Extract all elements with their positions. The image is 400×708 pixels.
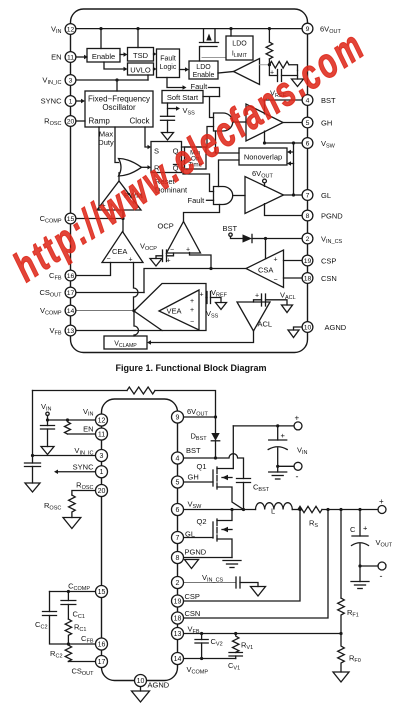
junction VCOMP node — [132, 309, 135, 312]
svg-text:PGND: PGND — [185, 548, 207, 557]
svg-text:AGND: AGND — [325, 323, 347, 332]
svg-text:GL: GL — [321, 191, 331, 200]
op-amp CEA — [102, 232, 143, 264]
junction CSN on output rail — [326, 508, 329, 511]
node VIN - terminal — [294, 462, 302, 481]
ground VIN_CS — [251, 587, 266, 597]
pin 10 AGND — [302, 322, 347, 333]
svg-text:SYNC: SYNC — [73, 463, 94, 472]
wire CCOMP from pin 15 — [50, 591, 97, 593]
svg-text:TSD: TSD — [133, 51, 149, 60]
capacitor VOCP — [156, 250, 174, 265]
svg-text:+: + — [281, 431, 286, 440]
svg-text:2: 2 — [306, 236, 310, 243]
junction 6VOUT node — [214, 415, 217, 418]
transistor Q1 — [213, 467, 244, 510]
junction CV2 on VCOMP — [200, 657, 203, 660]
svg-text:+: + — [200, 292, 204, 299]
gate AND2 (GL) — [214, 187, 233, 205]
svg-text:GL: GL — [185, 530, 195, 539]
svg-text:7: 7 — [176, 535, 180, 542]
svg-text:20: 20 — [98, 488, 106, 495]
svg-text:9: 9 — [306, 26, 310, 33]
transistor LDO pass device — [200, 29, 219, 61]
wire CSP pin 19 to CSA + — [284, 260, 308, 262]
pin 20 ROSC — [44, 116, 76, 128]
wire VCOMP node to VCLAMP (hop over VFB wire) — [134, 311, 139, 336]
svg-text:1: 1 — [100, 469, 104, 476]
wire Vss arrow from soft start — [168, 106, 181, 110]
wire EN arrow into Enable — [76, 55, 88, 59]
junction on VIN rail above TSD — [136, 27, 139, 30]
pin 18 CSN — [302, 273, 337, 284]
wire CSN pin 18 to CSA - — [284, 277, 308, 279]
capacitor VIN bypass — [41, 420, 55, 447]
svg-text:Figure 1. Functional Block Dia: Figure 1. Functional Block Diagram — [115, 363, 266, 373]
pin 12 VIN — [51, 24, 76, 35]
block Enable — [87, 49, 120, 63]
pin 18 CSN (app) — [172, 609, 201, 624]
junction CFB node — [67, 642, 70, 645]
wire CEA output to PWM input — [122, 210, 124, 232]
resistor RC1 — [65, 619, 71, 644]
pin 11 EN — [51, 52, 76, 63]
wire CFB to pin 16 — [68, 643, 96, 645]
node VOUT - terminal — [378, 562, 386, 581]
wire top rail to DBST — [155, 391, 216, 434]
junction VIN source cap — [276, 424, 279, 427]
svg-text:Logic: Logic — [160, 64, 177, 71]
diode BST to VIN_CS — [243, 234, 266, 242]
ground output cap (3-bar) — [351, 566, 369, 589]
wire soft start output down — [167, 103, 169, 116]
svg-text:10: 10 — [304, 324, 312, 331]
wire AND1 to GH driver — [233, 121, 246, 123]
wire OR output to latch R arrow — [142, 165, 152, 169]
capacitor VIN source — [268, 426, 287, 466]
pin 7 GL — [302, 190, 331, 201]
block LDO Enable — [189, 61, 218, 79]
resistor RC2 — [65, 644, 71, 662]
svg-text:CSA: CSA — [258, 266, 273, 275]
svg-text:10: 10 — [137, 678, 145, 685]
svg-text:11: 11 — [98, 431, 105, 438]
pin 7 GL (app) — [172, 530, 196, 544]
svg-text:Oscillator: Oscillator — [102, 103, 136, 112]
svg-text:+: + — [363, 524, 368, 533]
svg-text:12: 12 — [98, 417, 106, 424]
wire VIN_CS pin 2 — [266, 238, 308, 240]
svg-text:6: 6 — [306, 140, 310, 147]
wire VFB pin 13 to error amp lower edge — [76, 330, 162, 332]
ground soft start — [162, 133, 174, 141]
amplifier ACL — [237, 302, 272, 331]
op-amp LDO error amp — [234, 59, 260, 85]
svg-text:5: 5 — [176, 479, 180, 486]
svg-text:+: + — [190, 307, 194, 314]
wire Rosc into oscillator — [76, 120, 85, 122]
op-amp error amplifier (outer) — [134, 284, 206, 331]
pin 12 VIN (app) — [83, 407, 108, 426]
resistor RF1 — [338, 598, 345, 634]
svg-text:4: 4 — [176, 455, 180, 462]
svg-text:BST: BST — [223, 224, 238, 233]
wire SYNC open with arrow — [54, 470, 96, 474]
wire left VIN_IC rail — [32, 391, 34, 456]
wire pin3 to oscillator top — [116, 80, 118, 91]
svg-text:8: 8 — [306, 213, 310, 220]
svg-text:14: 14 — [174, 656, 182, 663]
block Fault Logic — [157, 49, 180, 78]
svg-text:9: 9 — [176, 414, 180, 421]
junction Q2 drain on VSW — [230, 508, 233, 511]
wire Nonoverlap to AND2 — [219, 160, 240, 187]
pin 14 VCOMP (app) — [172, 653, 209, 676]
block Soft Start — [162, 91, 203, 104]
block VCLAMP — [104, 336, 147, 349]
wire Enable to UVLO arrow — [104, 62, 128, 71]
svg-text:16: 16 — [67, 273, 75, 280]
pin 13 VFB — [49, 325, 75, 337]
wire VIN source minus — [278, 465, 294, 467]
wire VSW pin 6 to inductor — [183, 509, 256, 511]
pin 5 GH (app) — [172, 473, 199, 489]
junction VFB divider — [339, 632, 342, 635]
svg-text:+: + — [379, 497, 384, 506]
svg-text:16: 16 — [98, 641, 106, 648]
block Nonoverlap — [239, 148, 287, 165]
wire Max Duty to OR gate — [115, 127, 119, 163]
wire VIN_IC (pin 3) — [76, 79, 148, 81]
op-amp CSA — [246, 250, 284, 288]
wire EN to pin 11 — [68, 433, 97, 435]
ground VREF (VEA) — [216, 303, 227, 310]
junction CCOMP/CEA/PWM — [121, 217, 124, 220]
pin 11 EN (app) — [83, 425, 107, 441]
wire VIN source rail — [233, 425, 294, 427]
wire rail to Enable — [100, 29, 102, 49]
ground LDO divider — [292, 71, 304, 87]
wire rail to TSD — [137, 29, 139, 48]
pin 16 CFB — [49, 270, 76, 282]
node 6VOUT terminal at GL driver — [252, 169, 273, 186]
junction output cap tap — [358, 508, 361, 511]
resistor LDO divider lower (horizontal) — [269, 61, 297, 70]
pin 13 VFB (app) — [172, 625, 200, 640]
pin 15 CCOMP (app) — [96, 586, 108, 598]
wire OCP + to CS rail — [190, 253, 212, 269]
wire GH driver supply to BST pin 4 — [265, 100, 308, 114]
op-amp VEA (inner) — [159, 290, 199, 330]
capacitor VIN_CS — [236, 577, 258, 588]
capacitor CV1 — [229, 653, 242, 659]
svg-text:PGND: PGND — [321, 212, 343, 221]
pin 17 CSOUT (app) — [71, 656, 107, 678]
wire AND2 to GL driver — [233, 195, 245, 197]
svg-text:L: L — [271, 507, 275, 516]
capacitor VREF (VEA) — [200, 292, 222, 304]
svg-text:2: 2 — [176, 580, 180, 587]
wire soft start to AND1 — [203, 97, 220, 118]
block UVLO — [128, 63, 154, 75]
ground AGND pin 10 — [288, 327, 301, 338]
svg-text:Clock: Clock — [129, 117, 150, 126]
wire Ramp to PWM — [98, 127, 100, 210]
junction CBST on VSW — [242, 508, 245, 511]
svg-text:Duty: Duty — [98, 138, 114, 147]
svg-text:ACL: ACL — [258, 320, 273, 329]
wire GL driver lower rail to PGND pin 8 — [265, 204, 308, 216]
wire latch Q to AND1 — [182, 127, 214, 148]
wire output rail to + terminal — [322, 509, 378, 511]
svg-text:LDO: LDO — [196, 64, 211, 71]
node Fault label at AND2 — [188, 196, 214, 205]
svg-text:−: − — [190, 319, 194, 326]
comparator PWM — [97, 181, 142, 210]
pin 1 SYNC (app) — [73, 463, 108, 478]
wire top rail from VIN to resistor — [33, 390, 128, 392]
wire pin3 to UVLO bottom — [147, 75, 149, 80]
wire VSW sense into Nonoverlap — [287, 143, 294, 195]
ground RF0 — [333, 672, 349, 682]
junction output minus — [358, 564, 361, 567]
resistor RV1 — [233, 634, 239, 653]
wire VCOMP pin 14 — [183, 658, 236, 660]
junction on VIN rail above LDO divider — [268, 27, 271, 30]
junction RF1 tap — [339, 508, 342, 511]
wire SYNC arrow into oscillator — [76, 99, 85, 103]
wire VIN plus rail — [232, 426, 234, 469]
wire OCP output — [184, 205, 220, 222]
svg-text:1: 1 — [69, 98, 73, 105]
capacitor CC2 — [43, 592, 69, 645]
svg-text:−: − — [274, 277, 278, 284]
svg-text:Nonoverlap: Nonoverlap — [244, 153, 282, 162]
node Max Duty label — [98, 130, 114, 148]
wire Fault net from Fault Logic — [167, 78, 187, 90]
wire ROSC from pin 20 — [72, 491, 96, 496]
wire PWM output to OR gate — [118, 173, 120, 181]
pin 10 AGND (app) — [135, 675, 170, 690]
svg-text:AGND: AGND — [148, 681, 170, 690]
node VOUT + terminal — [378, 497, 386, 514]
block TSD — [128, 48, 154, 62]
pin 16 CFB (app) — [81, 634, 107, 650]
wire CFB pin 16 to CEA inverting input — [76, 263, 111, 276]
svg-text:3: 3 — [100, 453, 104, 460]
svg-text:6: 6 — [176, 507, 180, 514]
wire Clock to latch S arrow — [145, 127, 151, 149]
svg-text:GH: GH — [188, 473, 199, 482]
buffer GH driver — [246, 104, 283, 141]
svg-text:17: 17 — [67, 290, 75, 297]
wire RF1 from output rail — [340, 510, 342, 599]
ground VOCP — [150, 259, 162, 267]
resistor RS (sense) — [298, 506, 322, 512]
transistor Q2 — [213, 510, 232, 558]
svg-text:18: 18 — [304, 275, 312, 282]
pin 8 PGND — [302, 210, 343, 221]
pin 19 CSP (app) — [172, 592, 200, 607]
junction GL output sense — [292, 193, 295, 196]
svg-text:13: 13 — [67, 328, 75, 335]
pin 9 6VOUT (app) — [172, 407, 209, 423]
wire VIN rail (pin 12 to pin 9) — [76, 28, 307, 30]
resistor VIN to 6VOUT (top) — [127, 387, 155, 394]
wire LDO Enable to error amp — [218, 72, 234, 74]
pin 19 CSP — [302, 255, 336, 266]
svg-text:12: 12 — [67, 26, 75, 33]
latch SR (reset dominant) — [151, 142, 182, 173]
svg-text:Enable: Enable — [193, 72, 215, 79]
svg-text:8: 8 — [176, 555, 180, 562]
junction VIN_IC — [31, 454, 34, 457]
wire Fault Logic to LDO Enable arrow — [180, 67, 190, 71]
junction CCOMP branch — [67, 590, 70, 593]
wire VFB pin 13 to divider — [183, 633, 341, 635]
svg-text:13: 13 — [174, 631, 182, 638]
capacitor VREF (LDO) — [269, 65, 297, 82]
svg-text:CSN: CSN — [185, 609, 201, 618]
svg-text:20: 20 — [67, 118, 75, 125]
svg-text:+: + — [274, 257, 278, 264]
ground AGND (pin 10) — [132, 687, 150, 702]
wire GH pin 5 to Q1 gate — [183, 481, 213, 483]
pin 17 CSOUT — [39, 287, 75, 299]
junction DBST on BST wire — [214, 456, 217, 459]
ground VACL — [282, 305, 293, 313]
wire Enable to TSD arrow — [120, 52, 128, 56]
comparator OCP — [158, 222, 201, 254]
wire GL pin 7 to Q2 gate — [183, 537, 213, 539]
pin 1 SYNC — [41, 96, 76, 107]
svg-text:Enable: Enable — [92, 52, 115, 61]
pin 6 VSW (app) — [172, 500, 203, 516]
wire Fault net continues right — [209, 88, 220, 97]
svg-text:BST: BST — [321, 96, 336, 105]
svg-text:5: 5 — [306, 120, 310, 127]
svg-text:LDO: LDO — [232, 41, 247, 48]
pin 5 GH — [302, 117, 332, 128]
wire VIN to pin 12 — [48, 419, 97, 421]
wire Nonoverlap to AND1 — [216, 131, 240, 153]
capacitor soft start — [161, 116, 175, 132]
pin 15 CCOMP — [40, 213, 76, 225]
svg-text:CSP: CSP — [321, 257, 336, 266]
pin 3 VIN_IC (app) — [74, 446, 107, 462]
svg-text:-: - — [380, 571, 383, 581]
wire GH driver lower rail to VSW pin 6 — [265, 131, 308, 143]
svg-text:-: - — [296, 472, 299, 482]
svg-text:7: 7 — [306, 192, 310, 199]
node VIN input terminal — [46, 412, 49, 420]
svg-text:+: + — [295, 414, 300, 423]
ground ROSC — [63, 518, 81, 529]
svg-text:14: 14 — [67, 308, 75, 315]
block LDO ILIMIT — [226, 36, 253, 60]
wire GH driver output to pin 5 — [283, 122, 307, 124]
wire pin 9 to 6VOUT node — [183, 416, 216, 418]
svg-text:Fault: Fault — [191, 82, 209, 91]
junction CV2 on VFB — [200, 632, 203, 635]
wire PGND pin 8 — [183, 557, 232, 559]
resistor ROSC — [69, 495, 76, 518]
pin 8 PGND (app) — [172, 548, 207, 564]
svg-text:3: 3 — [69, 77, 73, 84]
pin 4 BST — [302, 95, 336, 106]
wire VIN_CS pin 2 — [183, 582, 236, 584]
wire VIN_CS to CSA supply — [265, 239, 267, 259]
svg-text:Q2: Q2 — [197, 517, 207, 526]
svg-text:17: 17 — [98, 659, 106, 666]
svg-text:CSN: CSN — [321, 274, 337, 283]
wire CEA + input down to VCOMP node (with hop) — [134, 263, 139, 311]
capacitor CV2 — [195, 634, 208, 659]
buffer GL driver — [245, 177, 284, 214]
svg-text:11: 11 — [67, 54, 74, 61]
wire VCOMP pin 14 to error amp output — [76, 310, 134, 312]
junction GH lower rail on VSW wire — [263, 141, 266, 144]
resistor EN pull-up — [65, 420, 71, 434]
capacitor C (output) — [350, 510, 369, 567]
IC boundary U1 — [71, 9, 308, 353]
block Fixed-Frequency Oscillator — [85, 91, 153, 127]
ground Q2 source (3-bar) — [223, 561, 241, 568]
junction VIN to EN resistor — [66, 418, 69, 421]
IC boundary U1 (application) — [102, 399, 178, 681]
pin 3 VIN_IC — [42, 75, 75, 87]
ground VIN source (3-bar) — [269, 466, 287, 479]
wire error amp to divider (grey) — [260, 64, 270, 66]
pin 14 VCOMP — [40, 305, 76, 317]
wire UVLO to Fault Logic arrow — [153, 67, 157, 71]
svg-text:+: + — [167, 258, 171, 265]
gate AND1 (GH) — [214, 113, 233, 131]
wire CS rail (CSA output to CSOUT) — [144, 269, 246, 293]
capacitor CBST — [237, 479, 251, 510]
wire GL driver output to pin 7 — [284, 194, 308, 196]
wire LDO gate sense (grey) — [202, 57, 226, 59]
junction pin3 wire to oscillator — [115, 78, 118, 81]
svg-text:CEA: CEA — [112, 247, 127, 256]
svg-text:18: 18 — [174, 615, 182, 622]
junction on VIN rail above LDO ILIMIT — [229, 27, 232, 30]
node BST terminal and label — [223, 224, 243, 239]
svg-text:CSP: CSP — [185, 592, 200, 601]
capacitor VIN_IC — [25, 456, 41, 484]
wire output minus — [360, 565, 378, 567]
svg-text:OCP: OCP — [158, 222, 174, 231]
junction on VIN rail above Enable — [99, 27, 102, 30]
junction VIN node — [46, 418, 49, 421]
capacitor CC1 — [61, 592, 76, 620]
resistor LDO divider upper — [266, 29, 273, 65]
svg-text:SYNC: SYNC — [41, 97, 62, 106]
junction OCP on CS rail — [209, 267, 212, 270]
wire VIN_IC to pin 3 — [33, 455, 97, 457]
svg-text:15: 15 — [98, 589, 106, 596]
svg-text:Soft Start: Soft Start — [167, 93, 199, 102]
wire CSP pin 19 to RS left — [183, 510, 300, 602]
junction LDO divider — [268, 63, 271, 66]
svg-text:BST: BST — [186, 446, 201, 455]
junction BST diode on VIN_CS wire — [264, 237, 267, 240]
svg-text:EN: EN — [83, 425, 93, 434]
svg-text:EN: EN — [51, 53, 61, 62]
diode DBST — [211, 433, 219, 458]
wire CCOMP pin 15 to PWM/CEA node — [76, 218, 123, 220]
wire rail to ILIMIT — [230, 29, 232, 36]
